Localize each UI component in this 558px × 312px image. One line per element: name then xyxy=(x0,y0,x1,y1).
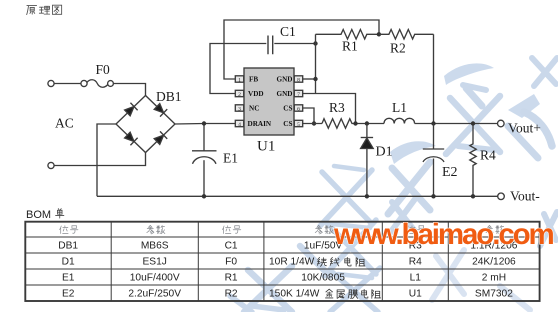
resistor R2 xyxy=(379,30,434,40)
wire AC bottom to bridge bottom xyxy=(54,153,145,166)
svg-text:R4: R4 xyxy=(409,257,422,268)
svg-text:F0: F0 xyxy=(225,257,237,268)
pin 8 box xyxy=(294,76,302,82)
wire pin5 CS xyxy=(303,123,322,125)
diode D1 xyxy=(361,124,374,197)
svg-text:AC: AC xyxy=(55,116,74,131)
fuse F0 xyxy=(81,80,87,86)
node C1-GND junction xyxy=(313,41,317,45)
svg-text:C1: C1 xyxy=(280,24,296,39)
svg-text:NC: NC xyxy=(249,105,259,113)
inductor L1 xyxy=(384,118,415,123)
pin 3 box xyxy=(235,105,243,111)
svg-text:R3: R3 xyxy=(329,100,345,115)
svg-text:VDD: VDD xyxy=(248,90,264,98)
node D1 top junction xyxy=(365,121,369,125)
node E1 bottom junction xyxy=(202,194,206,198)
node D1 bottom junction xyxy=(365,194,369,198)
svg-text:8: 8 xyxy=(297,77,300,83)
wire L1 to Vout+ xyxy=(415,123,498,125)
svg-text:D1: D1 xyxy=(376,145,393,160)
svg-text:U1: U1 xyxy=(409,289,422,300)
node output junction (R2/E2) xyxy=(431,121,435,125)
wire FB feedback loop xyxy=(224,20,379,79)
svg-text:4: 4 xyxy=(238,122,241,128)
svg-text:GND: GND xyxy=(277,90,293,98)
svg-text:FB: FB xyxy=(249,76,258,84)
svg-text:BOM: BOM xyxy=(26,209,51,221)
svg-text:F0: F0 xyxy=(96,62,111,77)
table grid xyxy=(25,222,539,301)
svg-text:2: 2 xyxy=(238,92,241,98)
capacitor E1 xyxy=(192,124,217,197)
node AC bottom terminal xyxy=(48,162,54,168)
node CS junction xyxy=(312,121,316,125)
capacitor C1 xyxy=(268,36,316,55)
pin 1 box xyxy=(235,76,243,82)
svg-text:24K/1206: 24K/1206 xyxy=(472,257,516,268)
wire bottom rail xyxy=(97,195,498,197)
svg-text:R2: R2 xyxy=(390,41,406,56)
wire VDD to C1 xyxy=(210,44,266,94)
pin 5 box xyxy=(294,120,302,126)
watermark tile center lattice xyxy=(320,170,380,312)
pin 6 box xyxy=(294,105,302,111)
svg-text:Vout+: Vout+ xyxy=(508,121,541,136)
resistor R4 xyxy=(470,124,476,197)
svg-text:MB6S: MB6S xyxy=(141,241,169,252)
pin 4 box xyxy=(235,120,243,126)
pin name labels xyxy=(248,76,293,128)
svg-text:10K/0805: 10K/0805 xyxy=(301,273,345,284)
watermark swoosh mid xyxy=(390,141,436,164)
svg-text:R4: R4 xyxy=(480,148,496,163)
node R3 right junction xyxy=(353,121,357,125)
wire pin7 GND to switch node xyxy=(303,94,356,124)
node Vout+ terminal xyxy=(498,120,505,127)
svg-text:E2: E2 xyxy=(442,165,458,180)
svg-text:DRAIN: DRAIN xyxy=(248,120,272,128)
watermark tile bottom-left xyxy=(244,246,330,312)
diode DB1 lower-right xyxy=(153,131,167,145)
node E1 top junction xyxy=(202,121,206,125)
wire AC top to fuse xyxy=(54,83,81,85)
label BOM list title xyxy=(26,209,64,221)
svg-text:6: 6 xyxy=(297,106,300,112)
node E2 bottom junction xyxy=(431,194,435,198)
wire pin6 CS down xyxy=(303,108,314,124)
svg-text:E2: E2 xyxy=(62,289,75,300)
svg-text:L1: L1 xyxy=(410,273,422,284)
node R4 top junction xyxy=(471,121,475,125)
svg-text:U1: U1 xyxy=(257,139,275,155)
wire fuse to bridge top xyxy=(114,84,146,96)
svg-text:CS: CS xyxy=(283,105,292,113)
node R1-R2 junction xyxy=(377,32,381,36)
resistor R3 xyxy=(322,119,384,129)
watermark right-edge strokes xyxy=(540,212,557,246)
svg-text:L1: L1 xyxy=(392,100,407,115)
row2 col4: 10R 1/4W wirewound resistor xyxy=(269,257,365,268)
wire bridge right to DRAIN xyxy=(175,123,235,126)
wire GND vertical (C1/R1 to pins 8,7) xyxy=(315,34,317,93)
svg-text:R2: R2 xyxy=(225,289,238,300)
node AC top terminal xyxy=(48,80,54,86)
bridge rectifier DB1 xyxy=(116,96,175,153)
svg-text:E1: E1 xyxy=(223,151,238,166)
row4 col4: 150K 1/4W metal film resistor xyxy=(269,289,381,300)
svg-text:10R 1/4W: 10R 1/4W xyxy=(269,257,315,268)
node Vout- terminal xyxy=(498,193,505,200)
pin 7 box xyxy=(294,90,302,96)
pin 2 box xyxy=(235,90,243,96)
svg-text:GND: GND xyxy=(277,76,293,84)
op-amp U1 (SM7302 IC) xyxy=(235,68,302,135)
svg-text:7: 7 xyxy=(297,92,300,98)
svg-text:DB1: DB1 xyxy=(58,241,78,252)
title 原理图 xyxy=(27,5,62,14)
svg-text:5: 5 xyxy=(297,122,300,128)
table data xyxy=(58,241,517,300)
svg-text:R1: R1 xyxy=(342,39,358,54)
svg-text:3: 3 xyxy=(238,106,241,112)
node R4 bottom junction xyxy=(471,194,475,198)
wire pin8 GND xyxy=(303,78,316,80)
table header row xyxy=(60,225,505,234)
capacitor E2 xyxy=(423,124,444,197)
svg-text:2 mH: 2 mH xyxy=(482,273,506,284)
svg-text:C1: C1 xyxy=(225,241,238,252)
diode DB1 upper-left xyxy=(124,103,138,117)
watermark tile top-right xyxy=(444,63,552,158)
diode DB1 upper-right xyxy=(153,103,167,117)
svg-text:10uF/400V: 10uF/400V xyxy=(130,273,180,284)
svg-text:E1: E1 xyxy=(62,273,75,284)
svg-text:ES1J: ES1J xyxy=(143,257,167,268)
pin numbers xyxy=(238,77,300,128)
svg-text:Vout-: Vout- xyxy=(510,189,540,204)
resistor R1 xyxy=(316,30,379,40)
svg-text:CS: CS xyxy=(283,120,292,128)
svg-text:R1: R1 xyxy=(225,273,238,284)
svg-text:1: 1 xyxy=(238,77,241,83)
svg-text:DB1: DB1 xyxy=(156,89,182,104)
node pin8 junction xyxy=(313,77,317,81)
wire bridge left to bottom rail xyxy=(97,124,116,196)
svg-text:2.2uF/250V: 2.2uF/250V xyxy=(128,289,181,300)
svg-text:150K 1/4W: 150K 1/4W xyxy=(269,289,320,300)
svg-text:www.baimao.com: www.baimao.com xyxy=(333,218,554,251)
diode DB1 lower-left xyxy=(124,131,138,145)
svg-text:D1: D1 xyxy=(62,257,75,268)
svg-text:SM7302: SM7302 xyxy=(475,289,513,300)
wire R2 down to output node xyxy=(433,34,435,123)
